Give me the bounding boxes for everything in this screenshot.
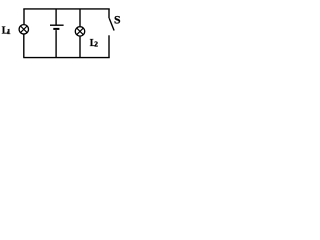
svg-text:L1: L1 [2,26,11,37]
svg-text:S: S [114,13,121,27]
svg-text:L2: L2 [90,38,98,49]
